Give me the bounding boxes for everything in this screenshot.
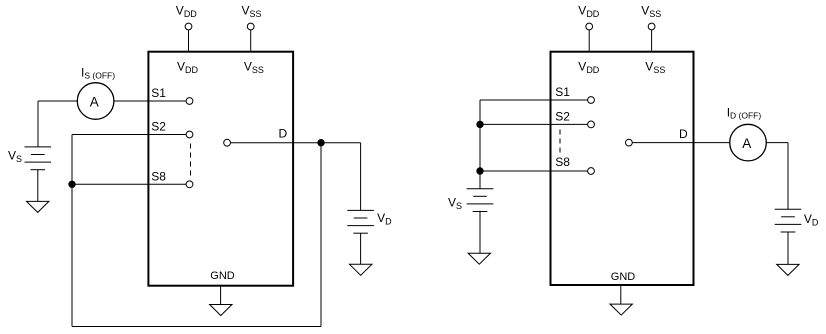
svg-text:S8: S8 [151, 169, 166, 183]
svg-text:VD: VD [804, 212, 819, 228]
svg-text:S2: S2 [555, 109, 570, 123]
svg-text:VSS: VSS [244, 60, 264, 76]
svg-text:VS: VS [448, 195, 462, 211]
svg-text:VDD: VDD [177, 60, 199, 76]
svg-text:S1: S1 [555, 85, 570, 99]
svg-text:VDD: VDD [578, 60, 600, 76]
svg-text:GND: GND [210, 270, 235, 282]
svg-text:A: A [90, 94, 99, 109]
svg-text:S8: S8 [555, 155, 570, 169]
svg-text:GND: GND [611, 271, 636, 283]
svg-text:ID (OFF): ID (OFF) [727, 106, 762, 121]
svg-text:VSS: VSS [645, 60, 665, 76]
svg-text:D: D [279, 126, 288, 140]
svg-text:VDD: VDD [578, 4, 600, 20]
svg-text:VD: VD [377, 211, 392, 227]
svg-text:D: D [679, 127, 688, 141]
svg-text:VS: VS [8, 149, 22, 165]
svg-text:VDD: VDD [176, 4, 198, 20]
svg-text:A: A [742, 136, 751, 151]
svg-text:IS (OFF): IS (OFF) [81, 65, 115, 80]
svg-text:VSS: VSS [242, 4, 262, 20]
svg-text:S1: S1 [151, 86, 166, 100]
svg-text:VSS: VSS [641, 4, 661, 20]
svg-text:S2: S2 [151, 120, 166, 134]
